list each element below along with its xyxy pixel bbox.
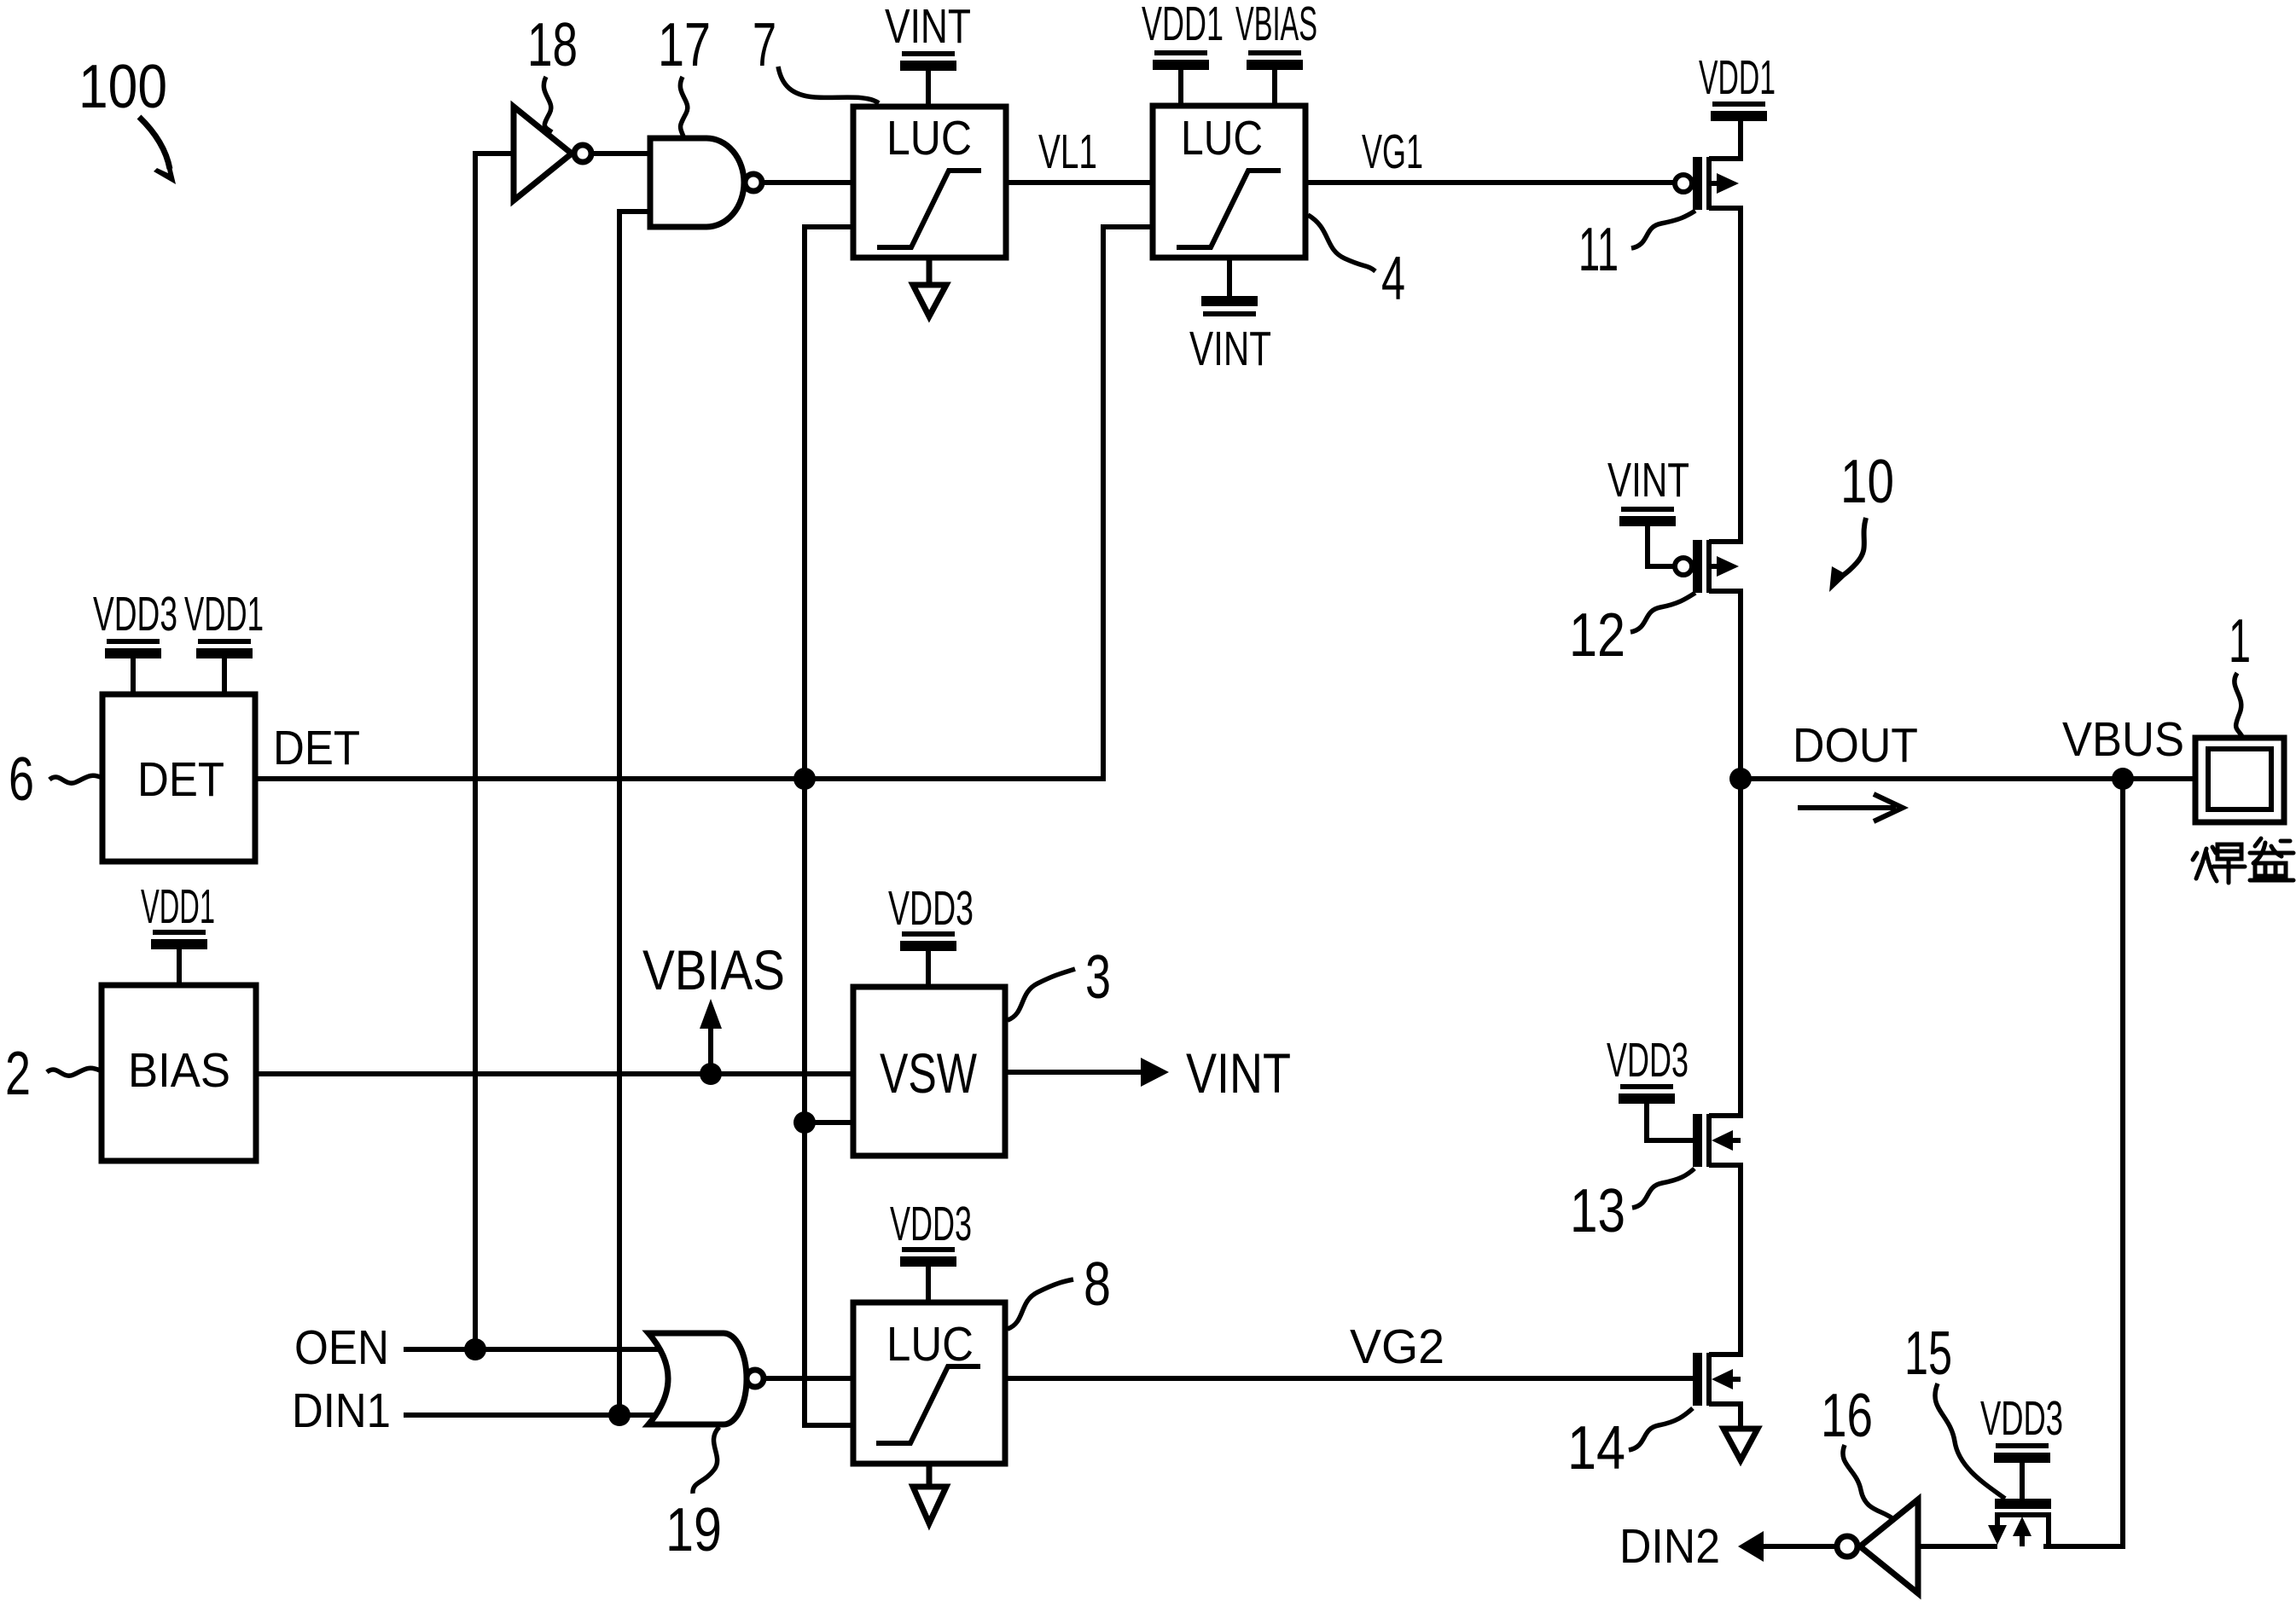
svg-text:DET: DET: [273, 721, 360, 775]
svg-text:VBUS: VBUS: [2062, 712, 2184, 767]
svg-text:13: 13: [1570, 1177, 1625, 1245]
svg-text:8: 8: [1084, 1250, 1111, 1319]
svg-text:VDD1: VDD1: [141, 879, 215, 934]
svg-text:VDD1: VDD1: [184, 587, 264, 641]
svg-text:11: 11: [1578, 216, 1619, 284]
svg-text:18: 18: [527, 11, 578, 79]
svg-text:VBIAS: VBIAS: [1235, 0, 1317, 51]
svg-text:7: 7: [753, 11, 776, 79]
svg-text:12: 12: [1569, 601, 1625, 670]
svg-text:LUC: LUC: [886, 1317, 974, 1372]
svg-text:100: 100: [78, 53, 167, 121]
svg-text:DIN2: DIN2: [1619, 1519, 1720, 1574]
svg-text:VINT: VINT: [1607, 453, 1689, 508]
svg-text:6: 6: [9, 745, 34, 814]
svg-text:14: 14: [1567, 1414, 1625, 1482]
svg-text:VDD3: VDD3: [890, 1197, 972, 1251]
svg-text:VINT: VINT: [1186, 1041, 1291, 1105]
svg-text:BIAS: BIAS: [128, 1043, 230, 1098]
svg-text:VDD3: VDD3: [1980, 1391, 2063, 1446]
svg-text:4: 4: [1381, 245, 1405, 313]
svg-text:VDD1: VDD1: [1142, 0, 1224, 51]
svg-text:VG1: VG1: [1362, 125, 1423, 179]
svg-text:VINT: VINT: [1189, 322, 1271, 376]
svg-text:VL1: VL1: [1038, 125, 1097, 179]
svg-text:VDD3: VDD3: [1607, 1033, 1689, 1088]
svg-text:19: 19: [666, 1496, 722, 1564]
svg-text:VDD3: VDD3: [93, 587, 177, 641]
svg-text:DOUT: DOUT: [1793, 718, 1918, 773]
svg-text:LUC: LUC: [886, 111, 972, 165]
svg-text:OEN: OEN: [294, 1320, 389, 1375]
svg-text:16: 16: [1821, 1382, 1873, 1450]
svg-text:DET: DET: [137, 752, 224, 807]
svg-text:LUC: LUC: [1181, 111, 1263, 165]
svg-text:2: 2: [5, 1040, 31, 1108]
svg-text:10: 10: [1840, 448, 1894, 516]
svg-text:VBIAS: VBIAS: [642, 938, 785, 1001]
svg-text:VSW: VSW: [880, 1041, 978, 1105]
svg-text:DIN1: DIN1: [292, 1383, 391, 1438]
svg-text:VINT: VINT: [885, 0, 971, 54]
svg-text:17: 17: [658, 11, 711, 79]
svg-text:15: 15: [1904, 1320, 1952, 1388]
svg-text:VG2: VG2: [1350, 1320, 1444, 1374]
svg-text:VDD1: VDD1: [1699, 50, 1776, 105]
svg-text:3: 3: [1085, 943, 1111, 1012]
svg-text:1: 1: [2229, 607, 2251, 676]
svg-text:VDD3: VDD3: [888, 881, 974, 936]
